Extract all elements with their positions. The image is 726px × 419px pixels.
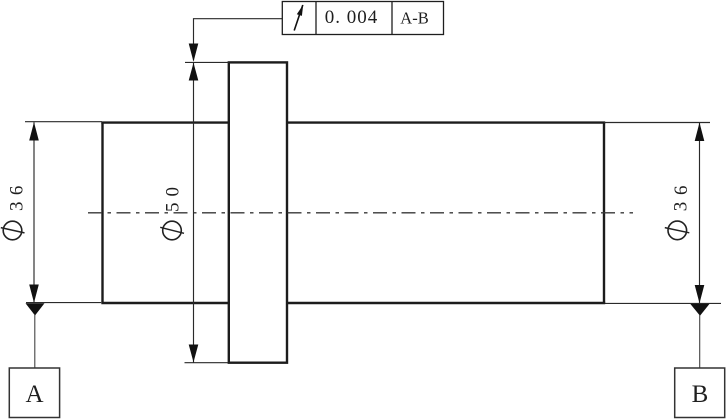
dimension line left (phi36) bbox=[33, 122, 35, 303]
centerline bbox=[88, 212, 633, 214]
datum triangle left bbox=[26, 303, 45, 315]
dimension text phi50 bbox=[160, 187, 184, 240]
svg-text:0: 0 bbox=[163, 187, 184, 197]
extension line flange-bottom bbox=[185, 362, 229, 364]
leader arrow down bbox=[189, 44, 199, 62]
arrow down left bbox=[29, 285, 39, 303]
dimension line phi50 bbox=[193, 62, 195, 362]
datum triangle right bbox=[690, 304, 709, 316]
datum box B bbox=[675, 368, 725, 418]
arrow up phi50 bbox=[189, 63, 199, 81]
dimension text phi36 left bbox=[1, 186, 28, 240]
svg-text:3: 3 bbox=[671, 202, 692, 212]
datum leader line right bbox=[699, 315, 701, 368]
dimension text phi36 right bbox=[665, 185, 692, 239]
svg-text:A-B: A-B bbox=[400, 8, 428, 27]
datum box A bbox=[9, 368, 59, 418]
svg-text:6: 6 bbox=[6, 186, 27, 196]
svg-text:0. 004: 0. 004 bbox=[325, 7, 379, 28]
svg-text:B: B bbox=[692, 381, 709, 408]
arrow down phi50 bbox=[189, 345, 199, 363]
datum leader line left bbox=[34, 315, 36, 368]
svg-text:5: 5 bbox=[163, 203, 184, 213]
svg-text:6: 6 bbox=[671, 185, 692, 195]
flange outline bbox=[229, 62, 287, 362]
circular runout symbol bbox=[294, 5, 303, 31]
extension line top-right bbox=[604, 122, 710, 124]
arrow up right bbox=[695, 123, 705, 142]
arrow up left bbox=[29, 122, 39, 140]
extension line top-left bbox=[25, 121, 102, 123]
svg-text:3: 3 bbox=[6, 201, 27, 211]
extension line bottom-right bbox=[605, 302, 721, 304]
arrow down right bbox=[695, 285, 705, 303]
extension line flange-top bbox=[185, 61, 229, 63]
shaft outline bbox=[101, 123, 605, 303]
feature control frame box bbox=[282, 2, 443, 35]
dimension line right (phi36) bbox=[699, 123, 701, 304]
leader to feature control frame bbox=[194, 19, 283, 61]
extension line bottom-left bbox=[26, 302, 101, 304]
svg-text:A: A bbox=[25, 381, 43, 408]
